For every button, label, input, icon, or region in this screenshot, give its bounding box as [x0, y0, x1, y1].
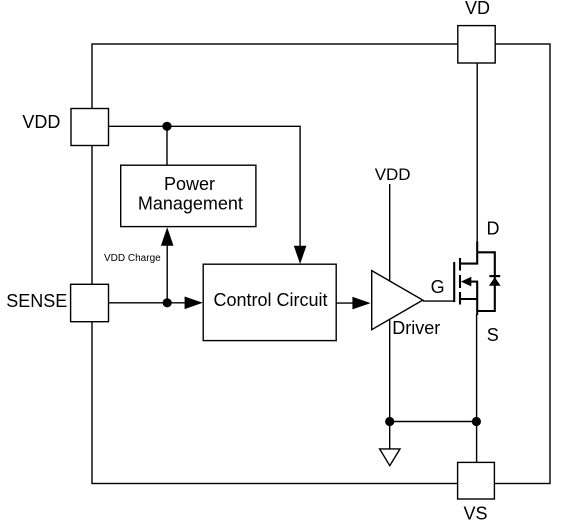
- node junction on SENSE line: [163, 298, 172, 307]
- source lead vertical: [476, 282, 478, 315]
- svg-text:VS: VS: [464, 503, 488, 523]
- wire VDD Charge vertical from SENSE node up to Power Management: [166, 245, 168, 303]
- body diode triangle: [489, 277, 501, 286]
- wire VDD horizontal from VDD pad to corner: [109, 126, 301, 247]
- body diode bar: [489, 275, 500, 277]
- svg-text:VD: VD: [465, 0, 490, 18]
- op-amp Driver triangle: [372, 271, 423, 330]
- body arrow of MOSFET: [461, 277, 471, 287]
- ground symbol: [380, 449, 400, 466]
- pad SENSE: [71, 284, 109, 321]
- source stub: [460, 298, 477, 300]
- svg-text:VDD: VDD: [375, 165, 411, 184]
- node junction at source/VS: [472, 417, 481, 426]
- arrowhead right into Control Circuit left: [185, 297, 203, 310]
- pad VDD: [71, 109, 109, 146]
- node junction at driver ground: [385, 417, 394, 426]
- transistor Q1 power MOSFET: [454, 242, 495, 316]
- block Power Management: [121, 165, 256, 226]
- body diode top link: [477, 252, 495, 311]
- arrowhead right into Driver input: [352, 297, 370, 310]
- wire Control Circuit output to Driver: [336, 302, 354, 304]
- channel segment bottom: [459, 292, 461, 305]
- arrowhead up into Power Management bottom: [161, 227, 174, 246]
- svg-text:SENSE: SENSE: [6, 291, 67, 311]
- channel segment top: [459, 258, 461, 271]
- block Control Circuit: [203, 264, 336, 340]
- gate bar: [453, 262, 455, 302]
- wire bottom horizontal from ground node to source node: [390, 421, 477, 423]
- wire drain vertical from VD pad down to MOSFET: [476, 63, 478, 242]
- channel segment middle: [459, 275, 461, 288]
- svg-text:Power: Power: [164, 174, 215, 194]
- pad VD: [458, 26, 495, 63]
- wire SENSE horizontal to Control Circuit: [109, 302, 187, 304]
- drain stub: [460, 242, 477, 264]
- arrowhead down into Control Circuit top: [294, 246, 307, 264]
- pad VS: [458, 462, 495, 499]
- svg-text:VDD Charge: VDD Charge: [104, 253, 161, 264]
- node junction on VDD line: [162, 122, 171, 131]
- svg-text:Driver: Driver: [392, 318, 440, 338]
- body tie horizontal: [470, 281, 478, 283]
- svg-text:Control Circuit: Control Circuit: [213, 290, 327, 310]
- wire ground stub: [389, 422, 391, 450]
- wire source vertical from MOSFET down to VS pad: [476, 314, 478, 462]
- svg-text:S: S: [487, 325, 499, 345]
- wire VDD supply vertical through Driver down to ground node: [389, 184, 391, 422]
- svg-text:G: G: [431, 277, 445, 297]
- svg-text:VDD: VDD: [22, 112, 60, 132]
- svg-text:D: D: [487, 219, 500, 239]
- wire IC boundary rectangle: [92, 44, 550, 484]
- wire stub from VDD node down to Power Management top: [166, 126, 168, 165]
- wire gate from Driver to MOSFET: [423, 300, 455, 302]
- svg-text:Management: Management: [138, 194, 243, 214]
